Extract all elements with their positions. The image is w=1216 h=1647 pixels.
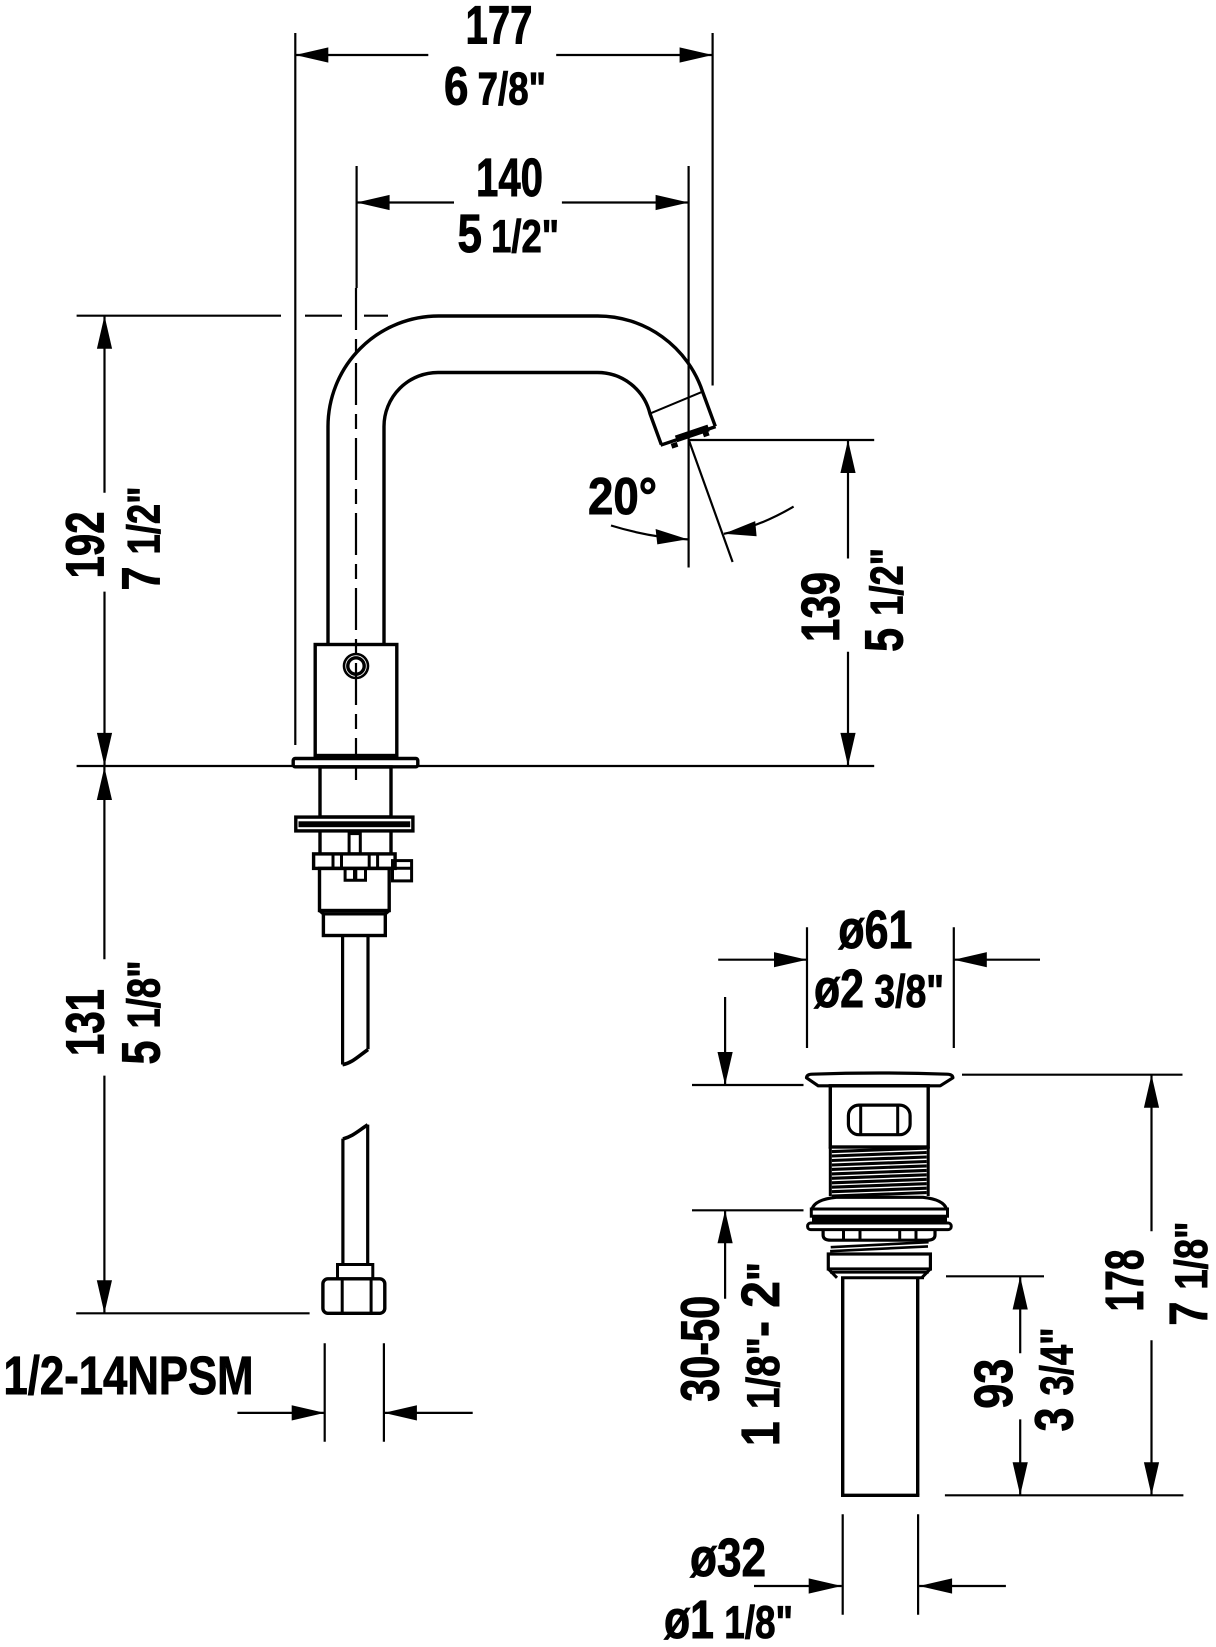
svg-text:6: 6 bbox=[444, 57, 469, 117]
dimension 131 line bbox=[103, 767, 105, 1313]
faucet body housing bbox=[315, 645, 397, 756]
drain upper body bbox=[830, 1086, 928, 1147]
svg-text:- 2: - 2 bbox=[731, 1281, 791, 1337]
spout inner outline bbox=[384, 372, 661, 644]
deck escutcheon flange bbox=[293, 759, 418, 767]
supply hose upper segment bbox=[343, 936, 368, 1065]
wire: extension line right of dim 177 bbox=[711, 33, 713, 386]
svg-text:1/2-14NPSM: 1/2-14NPSM bbox=[4, 1346, 254, 1406]
dimension 178 line bbox=[1150, 1075, 1152, 1496]
arrowhead dim177 left bbox=[295, 47, 328, 62]
connector nut facets bbox=[342, 1279, 371, 1313]
svg-text:140: 140 bbox=[476, 148, 543, 208]
svg-text:1/2": 1/2" bbox=[861, 548, 913, 616]
sensor window outer circle bbox=[344, 654, 368, 678]
svg-text:7/8": 7/8" bbox=[468, 63, 547, 115]
hose adapter collar bbox=[338, 1265, 373, 1279]
lower thread lines bbox=[830, 1242, 929, 1251]
locking nut facets bbox=[844, 1230, 917, 1240]
locking nut bbox=[823, 1230, 935, 1241]
tube bottom edge bbox=[841, 1494, 919, 1497]
wire: ticks of dim 30-50 bbox=[692, 1085, 804, 1210]
svg-text:139: 139 bbox=[791, 572, 851, 642]
dimension 30-50 line bbox=[724, 997, 726, 1299]
svg-text:1/2": 1/2" bbox=[118, 487, 170, 555]
arrowhead ø61 left bbox=[774, 952, 807, 967]
svg-text:7: 7 bbox=[1159, 1290, 1216, 1326]
aerator face band bbox=[676, 428, 709, 439]
set screw boss bbox=[393, 861, 412, 881]
thread section edges bbox=[830, 1147, 928, 1196]
arrowhead dim131 bottom bbox=[97, 1280, 112, 1313]
stud nut squares bbox=[345, 868, 365, 880]
dimension ø32 lines bbox=[754, 1585, 1006, 1587]
arrowhead angle-arc left bbox=[656, 529, 688, 544]
svg-text:93: 93 bbox=[964, 1359, 1024, 1409]
wire: top tick of dim 93 bbox=[946, 1275, 1044, 1277]
wire: extension lines of thread size pointer bbox=[325, 1343, 384, 1442]
connector nut bbox=[323, 1279, 385, 1314]
arrowhead 178 bottom bbox=[1144, 1462, 1159, 1495]
arrowhead 178 top bbox=[1144, 1075, 1159, 1108]
outlet collar bbox=[323, 914, 385, 936]
arrowhead ø32 left bbox=[809, 1578, 842, 1593]
svg-text:3/8": 3/8" bbox=[864, 965, 944, 1017]
collar chamfers bbox=[828, 1269, 930, 1278]
bracket facet lines bbox=[333, 854, 378, 869]
threaded shank lower bbox=[320, 831, 391, 854]
wire: deck/counter line bbox=[77, 765, 875, 767]
dimension 177 line bbox=[295, 54, 712, 56]
dimension 93 line bbox=[1019, 1277, 1021, 1496]
svg-text:1/8": 1/8" bbox=[1165, 1222, 1216, 1290]
svg-text:1: 1 bbox=[731, 1409, 791, 1446]
wire: 20 degree slanted line bbox=[689, 440, 733, 562]
shoulder dome bbox=[812, 1197, 947, 1209]
svg-text:5: 5 bbox=[855, 616, 915, 652]
wire: top tick of dim 178 bbox=[962, 1074, 1183, 1076]
arrowhead dim140 right bbox=[656, 195, 689, 210]
arrowhead 30-50 lower bbox=[718, 1210, 733, 1243]
nozzle tip face bbox=[661, 427, 716, 446]
svg-text:ø61: ø61 bbox=[838, 900, 912, 960]
nozzle joint line bbox=[650, 392, 703, 414]
arrowhead dim139 bottom bbox=[840, 733, 855, 766]
supply hose lower segment bbox=[343, 1125, 368, 1265]
aerator tabs bbox=[672, 433, 709, 446]
svg-text:30-50: 30-50 bbox=[671, 1296, 731, 1402]
svg-text:178: 178 bbox=[1095, 1250, 1155, 1312]
arrowhead dim177 right bbox=[680, 47, 713, 62]
svg-text:5: 5 bbox=[112, 1029, 172, 1065]
arrowhead 30-50 upper bbox=[718, 1052, 733, 1085]
arrowhead dim140 left bbox=[357, 195, 390, 210]
tailpiece tube bbox=[843, 1278, 918, 1495]
lower housing bbox=[320, 868, 390, 910]
wire: spout-outlet reference line (top tick of 139) bbox=[689, 439, 874, 441]
arrowhead angle-arc right bbox=[724, 521, 757, 536]
svg-text:ø32: ø32 bbox=[690, 1528, 766, 1588]
drain cap flange bbox=[807, 1073, 953, 1086]
svg-text:7: 7 bbox=[112, 555, 172, 591]
svg-text:1/2": 1/2" bbox=[481, 210, 559, 262]
flange plate bbox=[811, 1209, 947, 1216]
arrowhead dim192 top bbox=[97, 316, 112, 349]
collar skirt line bbox=[830, 1271, 929, 1274]
housing chamfers bbox=[320, 911, 390, 914]
arrowhead dim192 bottom bbox=[97, 733, 112, 766]
overflow window bbox=[848, 1105, 910, 1135]
wire: extension lines of dim ø32 bbox=[843, 1514, 918, 1614]
svg-text:131: 131 bbox=[56, 989, 116, 1056]
wire: extension line left of dim 140 bbox=[356, 166, 358, 288]
svg-text:1/8": 1/8" bbox=[737, 1337, 789, 1409]
wire: bottom tick of dim 131 bbox=[76, 1312, 309, 1314]
arrowhead dim131 top bbox=[97, 767, 112, 800]
svg-text:192: 192 bbox=[56, 511, 116, 578]
dimension 140 line bbox=[357, 201, 689, 203]
dimension 139 line bbox=[847, 440, 849, 766]
wire: top reference line at spout top bbox=[77, 315, 388, 317]
hose upper break curve bbox=[343, 1050, 369, 1065]
arrowhead thread-pointer right bbox=[384, 1405, 417, 1420]
tailpiece collar bbox=[828, 1254, 930, 1269]
mounting stud bbox=[349, 834, 360, 854]
svg-text:20°: 20° bbox=[588, 468, 657, 526]
angle dimension arc 20deg bbox=[611, 507, 794, 540]
svg-text:3: 3 bbox=[1025, 1396, 1085, 1432]
hose lower break curve bbox=[343, 1125, 368, 1139]
washer gasket band bbox=[299, 821, 411, 827]
spout outer outline bbox=[328, 316, 715, 646]
thread ridges bbox=[832, 1148, 927, 1196]
set screw boss midline bbox=[393, 867, 412, 870]
arrowhead ø32 right bbox=[919, 1578, 952, 1593]
wire: extension line right of dim 140 through nozzle bbox=[687, 166, 689, 568]
washer stack plate bbox=[296, 817, 413, 831]
svg-text:ø1: ø1 bbox=[664, 1590, 714, 1647]
dimension 192 line bbox=[103, 316, 105, 766]
svg-text:1/8": 1/8" bbox=[118, 961, 170, 1029]
threaded shank upper bbox=[320, 767, 391, 817]
svg-text:ø2: ø2 bbox=[814, 959, 864, 1019]
wire: extension line left of dim 177 bbox=[294, 33, 296, 745]
flange gasket band bbox=[812, 1216, 947, 1223]
sensor window inner circle bbox=[348, 658, 364, 674]
overflow window inner lines bbox=[861, 1106, 898, 1134]
arrowhead ø61 right bbox=[954, 952, 987, 967]
mounting bracket bar bbox=[314, 854, 396, 869]
dimension 1/2-14NPSM pointer lines bbox=[237, 1412, 472, 1414]
svg-text:": " bbox=[737, 1262, 789, 1281]
wire: extension lines of dim ø61 bbox=[807, 927, 954, 1048]
arrowhead 93 top bbox=[1013, 1277, 1028, 1310]
svg-text:177: 177 bbox=[466, 0, 533, 56]
svg-text:3/4": 3/4" bbox=[1031, 1328, 1083, 1396]
centerline of faucet axis bbox=[355, 288, 357, 785]
svg-text:5: 5 bbox=[458, 204, 483, 264]
dimension ø61 lines bbox=[718, 959, 1040, 961]
svg-text:1/8": 1/8" bbox=[714, 1596, 793, 1647]
lower washer plate bbox=[808, 1223, 952, 1230]
arrowhead thread-pointer left bbox=[292, 1405, 325, 1420]
wire: bottom tick of dims 93 and 178 bbox=[945, 1494, 1184, 1496]
arrowhead dim139 top bbox=[840, 440, 855, 473]
arrowhead 93 bottom bbox=[1013, 1462, 1028, 1495]
